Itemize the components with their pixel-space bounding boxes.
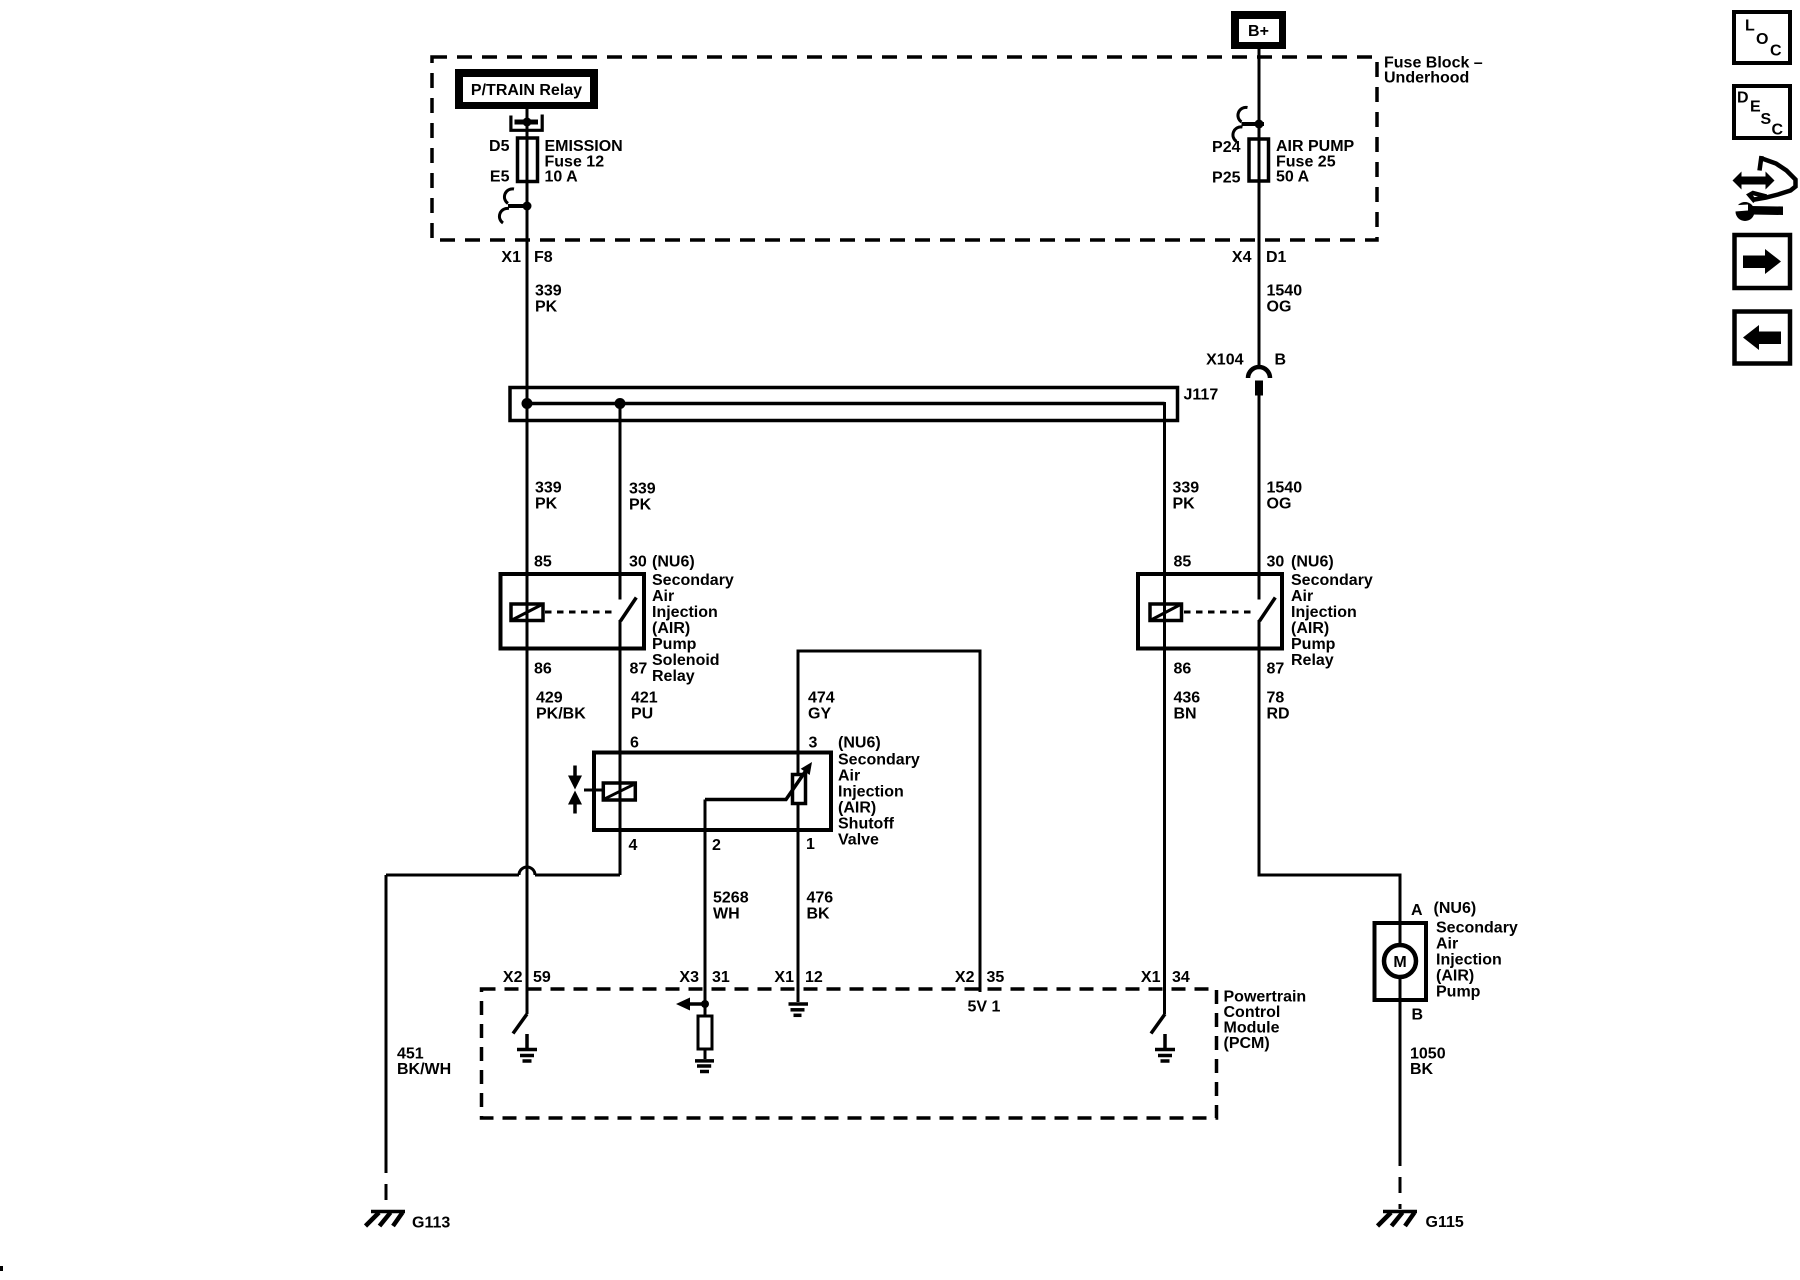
svg-text:Pump: Pump xyxy=(1291,636,1336,653)
svg-text:474: 474 xyxy=(808,690,835,707)
svg-text:X4: X4 xyxy=(1232,249,1252,266)
svg-text:D5: D5 xyxy=(489,138,510,155)
svg-text:BK/WH: BK/WH xyxy=(397,1061,451,1078)
svg-text:86: 86 xyxy=(1174,661,1192,678)
svg-text:Air: Air xyxy=(652,588,674,605)
svg-text:OG: OG xyxy=(1267,299,1292,316)
svg-text:Relay: Relay xyxy=(652,668,695,685)
svg-text:Solenoid: Solenoid xyxy=(652,652,720,669)
svg-text:P/TRAIN Relay: P/TRAIN Relay xyxy=(471,82,582,99)
svg-text:Secondary: Secondary xyxy=(652,572,734,589)
svg-text:451: 451 xyxy=(397,1046,424,1063)
svg-text:X3: X3 xyxy=(679,969,699,986)
svg-text:1: 1 xyxy=(806,836,815,853)
svg-text:L: L xyxy=(1745,18,1755,35)
svg-text:C: C xyxy=(1772,122,1784,139)
svg-text:Pump: Pump xyxy=(652,636,697,653)
svg-text:A: A xyxy=(1411,902,1423,919)
svg-text:X1: X1 xyxy=(774,969,794,986)
svg-text:X2: X2 xyxy=(955,969,975,986)
svg-text:PK: PK xyxy=(1173,496,1196,513)
svg-text:Injection: Injection xyxy=(1436,952,1502,969)
svg-text:D: D xyxy=(1737,90,1749,107)
svg-text:6: 6 xyxy=(630,735,639,752)
svg-text:Secondary: Secondary xyxy=(1291,572,1373,589)
svg-text:86: 86 xyxy=(534,661,552,678)
svg-text:PK: PK xyxy=(535,496,558,513)
svg-text:2: 2 xyxy=(712,837,721,854)
svg-text:Shutoff: Shutoff xyxy=(838,816,895,833)
svg-text:1050: 1050 xyxy=(1410,1046,1446,1063)
svg-text:1540: 1540 xyxy=(1267,480,1303,497)
svg-text:(AIR): (AIR) xyxy=(1436,968,1474,985)
svg-text:12: 12 xyxy=(805,969,823,986)
svg-text:AIR PUMP: AIR PUMP xyxy=(1276,138,1355,155)
svg-text:34: 34 xyxy=(1172,969,1190,986)
svg-text:Powertrain: Powertrain xyxy=(1224,989,1307,1006)
svg-text:D1: D1 xyxy=(1266,249,1287,266)
svg-text:(NU6): (NU6) xyxy=(1291,554,1334,571)
svg-text:P24: P24 xyxy=(1212,139,1241,156)
svg-text:Air: Air xyxy=(1436,936,1458,953)
svg-text:PU: PU xyxy=(631,706,653,723)
svg-text:35: 35 xyxy=(987,969,1005,986)
svg-text:(PCM): (PCM) xyxy=(1224,1035,1270,1052)
svg-text:Air: Air xyxy=(838,768,860,785)
svg-text:436: 436 xyxy=(1174,690,1201,707)
svg-text:(AIR): (AIR) xyxy=(838,800,876,817)
svg-text:50 A: 50 A xyxy=(1276,169,1310,186)
svg-text:Control: Control xyxy=(1224,1004,1281,1021)
svg-text:87: 87 xyxy=(630,661,648,678)
svg-text:B+: B+ xyxy=(1248,23,1269,40)
svg-text:87: 87 xyxy=(1267,661,1285,678)
svg-text:Injection: Injection xyxy=(1291,604,1357,621)
svg-text:RD: RD xyxy=(1267,706,1290,723)
svg-text:30: 30 xyxy=(629,554,647,571)
svg-text:PK/BK: PK/BK xyxy=(536,706,586,723)
svg-text:EMISSION: EMISSION xyxy=(545,138,623,155)
svg-text:OG: OG xyxy=(1267,496,1292,513)
svg-text:85: 85 xyxy=(1174,554,1192,571)
svg-text:PK: PK xyxy=(629,497,652,514)
svg-text:Air: Air xyxy=(1291,588,1313,605)
svg-text:339: 339 xyxy=(535,480,562,497)
svg-text:B: B xyxy=(1275,352,1287,369)
svg-text:5V 1: 5V 1 xyxy=(968,999,1001,1016)
svg-text:BK: BK xyxy=(807,906,831,923)
svg-text:421: 421 xyxy=(631,690,658,707)
svg-text:Injection: Injection xyxy=(652,604,718,621)
svg-text:(AIR): (AIR) xyxy=(1291,620,1329,637)
svg-text:339: 339 xyxy=(535,283,562,300)
svg-text:Injection: Injection xyxy=(838,784,904,801)
svg-text:X104: X104 xyxy=(1206,352,1243,369)
svg-text:M: M xyxy=(1393,954,1406,971)
svg-text:4: 4 xyxy=(629,837,638,854)
svg-text:J117: J117 xyxy=(1184,387,1219,404)
svg-text:(NU6): (NU6) xyxy=(838,735,881,752)
svg-text:PK: PK xyxy=(535,299,558,316)
svg-text:P25: P25 xyxy=(1212,170,1241,187)
svg-text:Underhood: Underhood xyxy=(1384,70,1469,87)
svg-text:O: O xyxy=(1756,31,1768,48)
svg-text:85: 85 xyxy=(534,554,552,571)
svg-text:X1: X1 xyxy=(501,249,521,266)
svg-text:339: 339 xyxy=(1173,480,1200,497)
svg-text:BK: BK xyxy=(1410,1061,1434,1078)
svg-text:X1: X1 xyxy=(1141,969,1161,986)
svg-text:78: 78 xyxy=(1267,690,1285,707)
svg-text:Module: Module xyxy=(1224,1020,1280,1037)
svg-text:WH: WH xyxy=(713,906,740,923)
svg-text:Relay: Relay xyxy=(1291,652,1334,669)
svg-text:B: B xyxy=(1412,1007,1424,1024)
svg-text:10 A: 10 A xyxy=(545,169,579,186)
svg-text:S: S xyxy=(1761,111,1772,128)
svg-text:(NU6): (NU6) xyxy=(652,554,695,571)
svg-text:3: 3 xyxy=(809,735,818,752)
svg-text:E: E xyxy=(1750,99,1761,116)
svg-text:59: 59 xyxy=(533,969,551,986)
svg-text:339: 339 xyxy=(629,481,656,498)
svg-text:E5: E5 xyxy=(490,169,510,186)
svg-text:(AIR): (AIR) xyxy=(652,620,690,637)
svg-text:Pump: Pump xyxy=(1436,984,1481,1001)
svg-text:Secondary: Secondary xyxy=(838,752,920,769)
svg-text:F8: F8 xyxy=(534,249,553,266)
svg-text:C: C xyxy=(1770,43,1782,60)
svg-text:429: 429 xyxy=(536,690,563,707)
svg-text:476: 476 xyxy=(807,890,834,907)
svg-text:1540: 1540 xyxy=(1267,283,1303,300)
svg-text:G113: G113 xyxy=(412,1215,450,1232)
svg-text:G115: G115 xyxy=(1426,1214,1464,1231)
svg-text:Valve: Valve xyxy=(838,832,879,849)
svg-text:GY: GY xyxy=(808,706,831,723)
svg-text:5268: 5268 xyxy=(713,890,749,907)
svg-text:31: 31 xyxy=(712,969,730,986)
svg-text:BN: BN xyxy=(1174,706,1197,723)
svg-text:30: 30 xyxy=(1267,554,1285,571)
svg-text:X2: X2 xyxy=(503,969,523,986)
svg-text:Secondary: Secondary xyxy=(1436,920,1518,937)
svg-text:(NU6): (NU6) xyxy=(1434,900,1477,917)
